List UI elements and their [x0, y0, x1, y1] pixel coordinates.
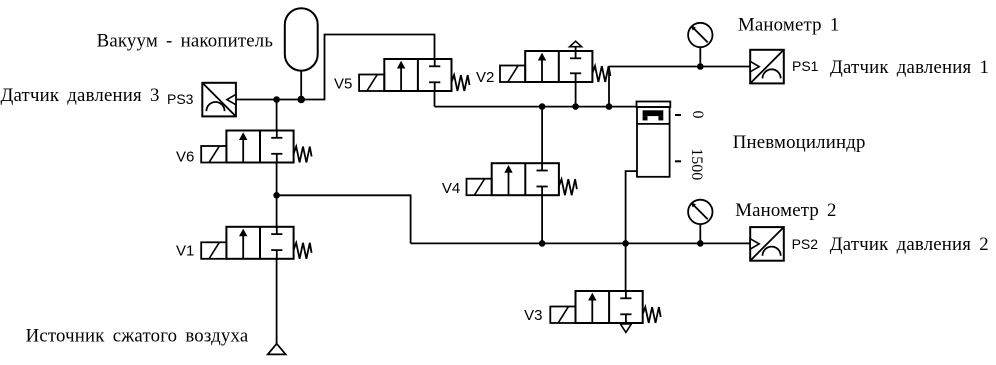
- valve V3: [550, 291, 660, 332]
- junction: [697, 63, 704, 70]
- junction: [697, 240, 704, 247]
- svg-text:Манометр 1: Манометр 1: [738, 14, 839, 35]
- svg-text:Вакуум - накопитель: Вакуум - накопитель: [97, 31, 274, 52]
- svg-text:V3: V3: [524, 307, 542, 324]
- wire node to V6: [276, 100, 278, 131]
- pneumatic cylinder: [637, 102, 671, 177]
- svg-text:V5: V5: [334, 76, 352, 93]
- wire gauge 2 stem: [699, 224, 701, 243]
- valve V5: [359, 59, 469, 91]
- valve V4: [467, 163, 577, 195]
- wire bus1 to V4 top: [541, 107, 543, 164]
- wire cylinder outlet: [626, 171, 637, 243]
- accumulator: [285, 8, 318, 70]
- wire to PS1: [609, 66, 750, 68]
- svg-text:1500: 1500: [688, 148, 705, 180]
- wire bus2 to V3: [625, 243, 627, 291]
- wire V1 to source: [276, 259, 278, 344]
- wire bus1: [435, 106, 638, 108]
- valve V6: [201, 131, 311, 163]
- wire bus2: [411, 242, 751, 244]
- svg-text:PS2: PS2: [792, 236, 819, 252]
- junction: [273, 192, 280, 199]
- wire accumulator stem: [300, 71, 302, 100]
- wire V2 bottom to bus1: [575, 82, 577, 107]
- svg-text:Датчик давления 2: Датчик давления 2: [830, 234, 989, 255]
- wire V2 spring node to bus1: [608, 67, 610, 107]
- junction: [572, 103, 579, 110]
- pressure gauge 2: [688, 200, 712, 224]
- pressure sensor PS3: [202, 83, 236, 117]
- wire node B to bus2: [277, 195, 411, 243]
- svg-text:PS1: PS1: [792, 58, 819, 74]
- pressure sensor PS1: [750, 50, 784, 84]
- wire PS3 to node: [236, 35, 434, 100]
- junction: [622, 240, 629, 247]
- svg-text:Манометр 2: Манометр 2: [735, 200, 836, 221]
- svg-text:V4: V4: [442, 180, 460, 197]
- svg-text:V1: V1: [176, 243, 194, 260]
- junction: [539, 103, 546, 110]
- wire V4 bottom to bus2: [541, 195, 543, 243]
- svg-text:V6: V6: [176, 149, 194, 166]
- wire node B to V1: [276, 195, 278, 227]
- junction: [539, 240, 546, 247]
- svg-text:V2: V2: [476, 69, 494, 86]
- svg-text:Пневмоцилиндр: Пневмоцилиндр: [733, 132, 866, 153]
- compressed air source symbol: [268, 344, 286, 355]
- svg-text:Датчик давления 1: Датчик давления 1: [830, 57, 989, 78]
- pressure sensor PS2: [750, 227, 784, 261]
- valve V1: [201, 227, 311, 259]
- junction: [297, 96, 305, 104]
- wire V6 to node B: [276, 163, 278, 196]
- valve V2: [500, 41, 610, 82]
- junction: [273, 96, 280, 103]
- wire gauge 1 stem: [699, 47, 701, 66]
- svg-text:Источник сжатого воздуха: Источник сжатого воздуха: [26, 326, 249, 347]
- junction: [606, 103, 613, 110]
- scale tick 1500: [675, 160, 681, 162]
- pressure gauge 1: [688, 23, 712, 47]
- scale tick 0: [675, 114, 681, 116]
- wire V5 bottom to bus1: [434, 91, 436, 107]
- svg-text:PS3: PS3: [167, 91, 194, 107]
- svg-text:0: 0: [689, 111, 706, 119]
- svg-text:Датчик давления 3: Датчик давления 3: [1, 85, 160, 106]
